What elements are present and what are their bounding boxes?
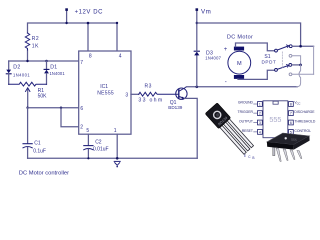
ground [114, 160, 120, 162]
svg-text:1: 1 [114, 128, 117, 134]
svg-text:CONTROL: CONTROL [294, 129, 311, 133]
svg-text:IC1: IC1 [100, 84, 108, 90]
wire pin2 net [61, 108, 79, 127]
node Vm tap [196, 10, 198, 23]
svg-text:D2: D2 [13, 65, 20, 71]
svg-text:+12V DC: +12V DC [75, 10, 103, 16]
svg-text:1K: 1K [32, 44, 39, 50]
wire pin8 drop [87, 23, 89, 51]
svg-text:R2: R2 [32, 36, 39, 42]
wire collector rail [186, 86, 297, 88]
switch S1 DPDT pole A [275, 49, 278, 52]
svg-text:5: 5 [86, 128, 89, 134]
svg-text:RESET: RESET [242, 129, 253, 133]
svg-text:C: C [248, 155, 251, 159]
node pin1 rail junction [116, 157, 119, 160]
svg-text:+: + [224, 47, 228, 53]
svg-text:TRIGGER: TRIGGER [238, 110, 254, 114]
transistor package BD139 TO-126 [205, 103, 255, 156]
svg-text:2: 2 [259, 112, 261, 116]
svg-text:Vm: Vm [201, 9, 211, 16]
svg-text:0.1uF: 0.1uF [33, 149, 46, 155]
resistor R3 33 ohm [139, 92, 179, 96]
svg-text:OUTPUT: OUTPUT [239, 119, 253, 123]
switch throw contact row3 [289, 64, 292, 67]
svg-text:1N4001: 1N4001 [13, 73, 30, 78]
svg-text:1N4007: 1N4007 [205, 55, 221, 60]
555 pinout pin 1 [258, 102, 294, 135]
svg-text:1N4001: 1N4001 [50, 71, 66, 76]
wire +12V supply rail [27, 50, 29, 61]
555 pinout labels [238, 101, 254, 133]
svg-text:3: 3 [125, 93, 128, 99]
wire ground rail [28, 157, 198, 159]
wire +12V rail horizontal [28, 23, 118, 51]
svg-text:C1: C1 [34, 141, 41, 147]
svg-text:DPDT: DPDT [262, 60, 277, 65]
svg-text:M: M [237, 61, 242, 67]
wire pin5 lead [87, 134, 89, 145]
switch S1 DPDT pole B [275, 69, 278, 72]
svg-text:555: 555 [291, 138, 297, 143]
diode D2 1N4001 [8, 61, 10, 70]
diode D1 1N4001 [46, 61, 48, 69]
resistor R2 1K [25, 33, 29, 50]
DIP-8 IC package 3D [267, 133, 310, 161]
wire pin6 net [28, 107, 79, 109]
svg-text:R3: R3 [145, 84, 152, 90]
svg-text:6: 6 [80, 106, 83, 112]
wire Vm rail [197, 23, 301, 46]
svg-text:VCC: VCC [294, 101, 300, 106]
switch throw contact row1 [289, 45, 292, 48]
node rail corner pin4 [116, 22, 118, 24]
wire motor top to pole A [236, 43, 275, 51]
resistor R1 50K potentiometer [9, 82, 47, 86]
svg-text:DC Motor: DC Motor [227, 35, 253, 41]
svg-text:555: 555 [269, 115, 281, 124]
switch linkage dashed [281, 52, 283, 69]
node wiper junction [26, 107, 28, 109]
node +12V tap [66, 10, 68, 23]
svg-text:0.01uF: 0.01uF [93, 147, 109, 153]
transistor package lead labels E C B [244, 154, 255, 160]
svg-text:1: 1 [259, 103, 261, 107]
node R2/pin7 junction [26, 60, 28, 62]
wire pin1 lead [116, 134, 118, 158]
wire pin3 lead [131, 93, 139, 95]
svg-text:-: - [225, 80, 227, 86]
svg-text:8: 8 [290, 103, 292, 107]
node pin5 rail junction [87, 157, 89, 159]
node pin2 tee [60, 107, 62, 109]
svg-text:DISCHARGE: DISCHARGE [294, 110, 315, 114]
svg-text:2: 2 [80, 125, 83, 131]
switch throw contact row4 [289, 73, 292, 76]
wire emitter to ground rail [185, 98, 198, 158]
op-amp U1 : IC1 NE555 timer box [79, 51, 131, 134]
svg-text:8: 8 [89, 54, 92, 60]
svg-text:NE555: NE555 [97, 91, 114, 97]
svg-text:6: 6 [290, 121, 292, 125]
svg-text:50K: 50K [38, 94, 48, 100]
switch throw contact row2 [289, 54, 292, 57]
svg-text:7: 7 [290, 112, 292, 116]
diode D3 1N4007 [196, 55, 198, 86]
potentiometer wiper arrow [27, 89, 29, 108]
555 pinout diagram body [263, 101, 288, 138]
svg-text:THRESHOLD: THRESHOLD [294, 119, 315, 123]
svg-text:3: 3 [259, 121, 261, 125]
svg-text:33 ohm: 33 ohm [138, 97, 163, 103]
wire pin7 net [9, 60, 79, 62]
svg-text:GROUND: GROUND [238, 101, 254, 105]
svg-text:4: 4 [119, 54, 122, 60]
node D1/pin7 junction [45, 60, 47, 62]
svg-text:C2: C2 [95, 140, 102, 146]
wire cross link row1 to row4 [313, 46, 315, 74]
capacitor C1 0.1uF [27, 108, 29, 144]
transistor Q1 BD139 [176, 88, 187, 99]
svg-text:B: B [252, 156, 254, 160]
svg-text:E: E [244, 154, 246, 158]
svg-text:7: 7 [80, 60, 83, 66]
capacitor C2 0.01uF [84, 145, 93, 147]
wire motor bottom to pole B [238, 70, 275, 79]
node collector/D3 junction [196, 86, 199, 89]
svg-text:BD139: BD139 [168, 105, 182, 110]
svg-text:D1: D1 [50, 64, 57, 70]
svg-text:4: 4 [259, 131, 261, 135]
wire row3 junction down to collector rail with hop [297, 65, 301, 87]
svg-text:DC Motor controller: DC Motor controller [19, 171, 69, 177]
